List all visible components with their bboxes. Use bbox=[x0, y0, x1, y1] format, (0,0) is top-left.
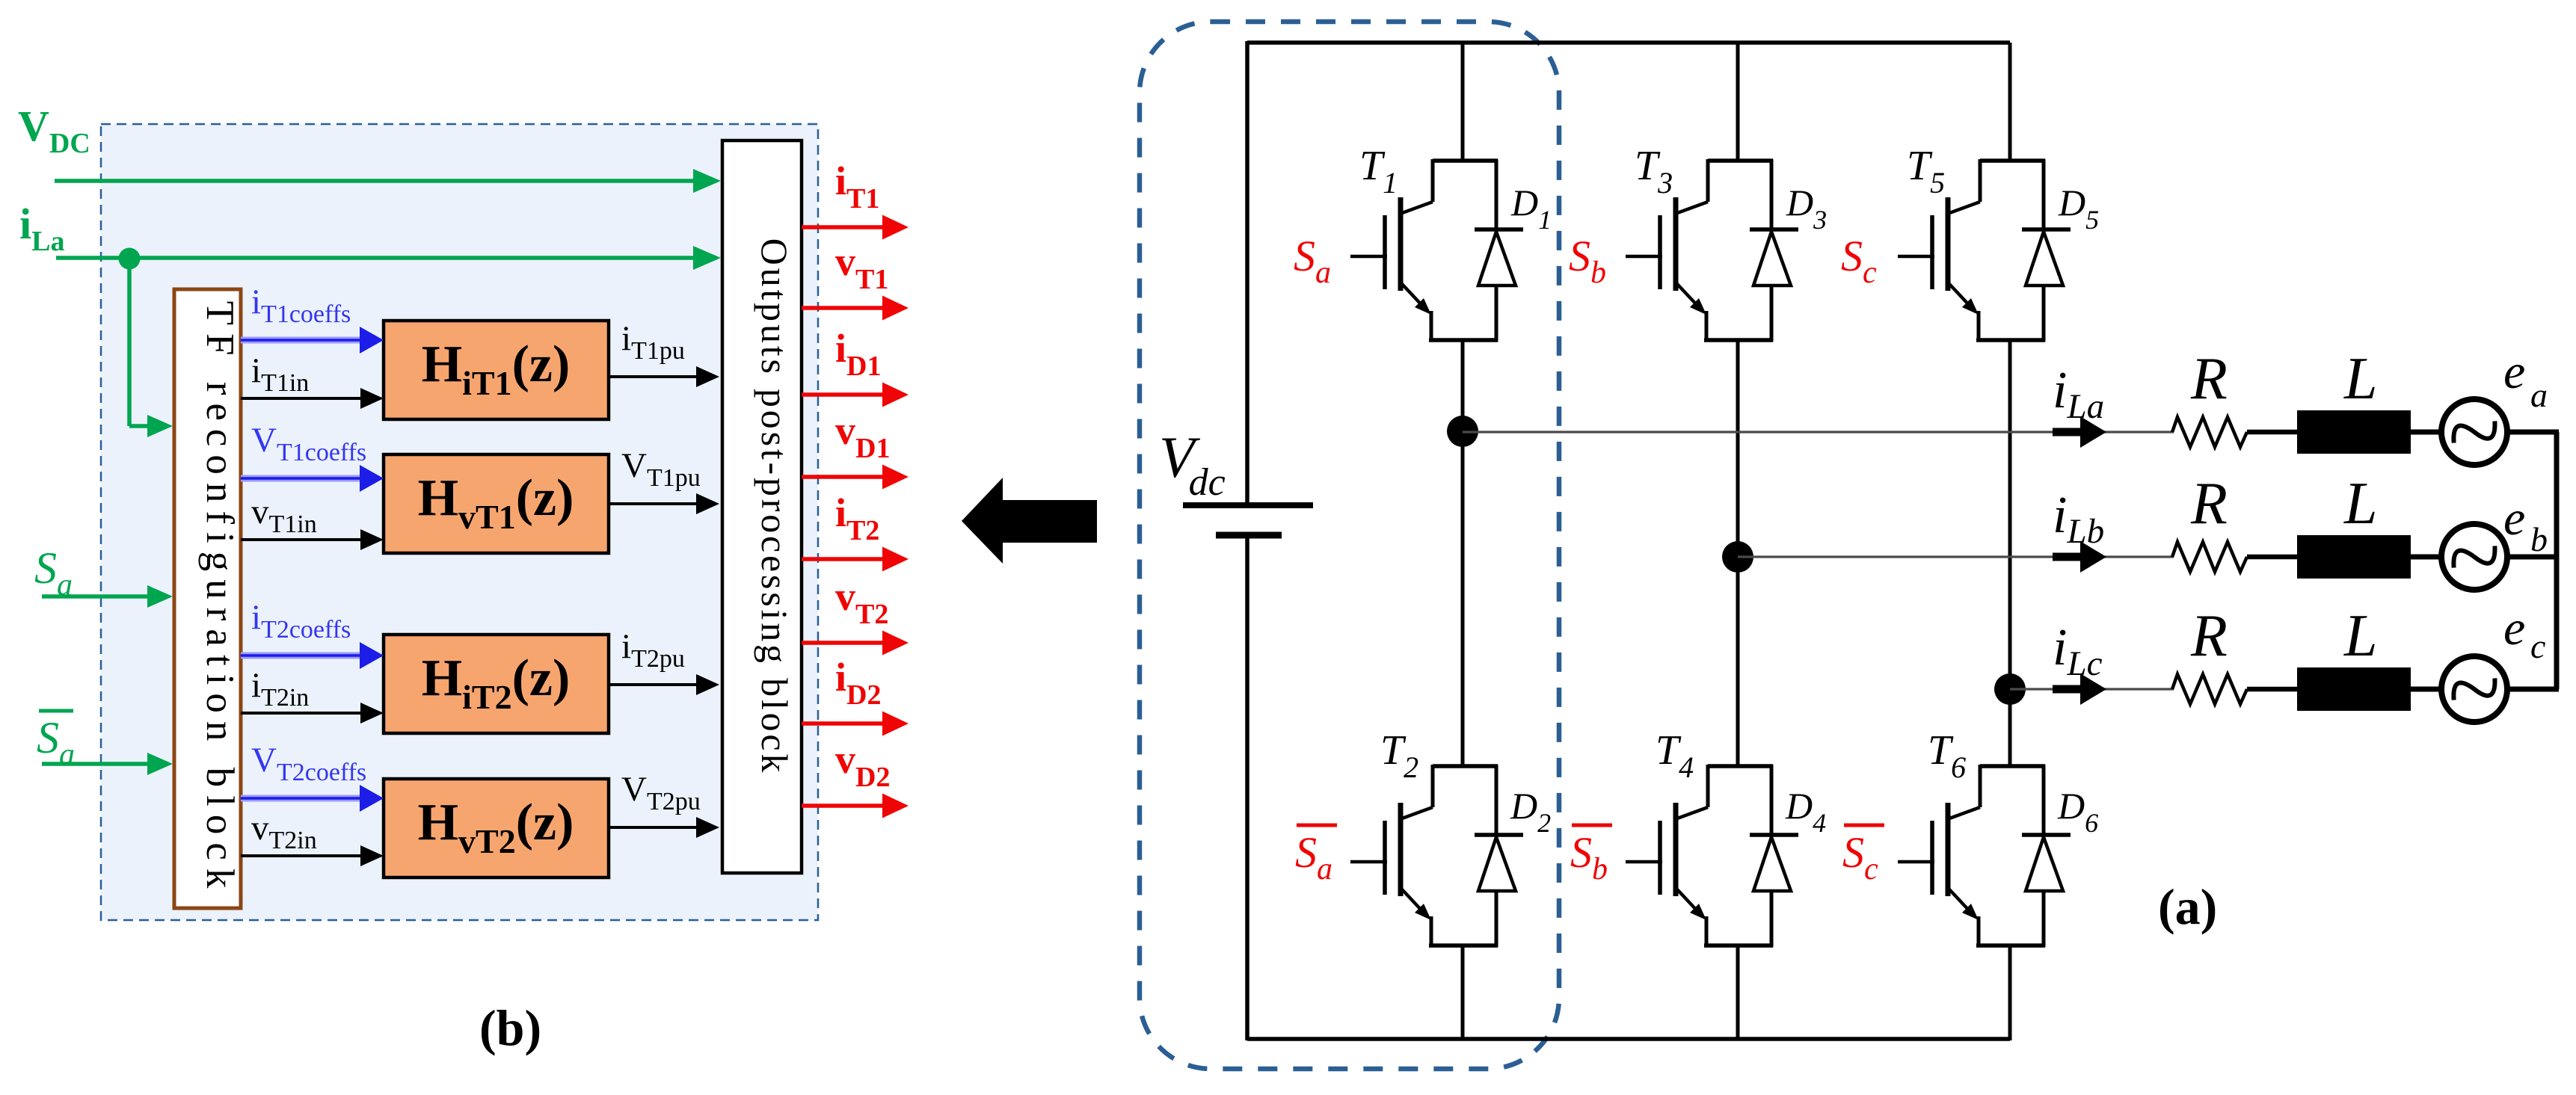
inductor L phase b bbox=[2297, 535, 2411, 579]
wire inductor to source bbox=[2411, 687, 2442, 692]
svg-text:L: L bbox=[2343, 346, 2378, 412]
wire output i_D1 (red arrow) bbox=[802, 392, 884, 397]
wire S_a-bar (green) into TF block bbox=[42, 762, 149, 766]
svg-text:L: L bbox=[2343, 603, 2378, 669]
wire resistor to inductor bbox=[2247, 687, 2299, 692]
label S_c-bar gate signal bbox=[1844, 824, 1884, 827]
wire phase a line to load bbox=[1463, 431, 2174, 433]
wire V_T1coeffs coefficients (blue double arrow) bbox=[241, 475, 364, 482]
wire i_T2in input (black arrow) bbox=[241, 712, 362, 715]
block: TF reconfiguration bbox=[174, 289, 241, 908]
resistor R phase a bbox=[2172, 417, 2247, 447]
diode D3 bbox=[1750, 159, 1798, 342]
wire phase c line to load bbox=[2010, 688, 2174, 690]
wire T3 to phase node b bbox=[1736, 340, 1740, 557]
current arrow i_La bbox=[2053, 428, 2082, 437]
big arrow pointing left bbox=[962, 478, 1097, 564]
transistor T2 bbox=[1350, 765, 1498, 947]
wire phase node c to T6 bbox=[2008, 689, 2012, 767]
battery V_dc negative wire bbox=[1245, 538, 1249, 1040]
wire T5 to phase node c bbox=[2008, 340, 2012, 689]
inductor L phase a bbox=[2297, 410, 2411, 454]
block: transfer function H_vT2(z) bbox=[384, 779, 609, 877]
wire T1 to phase node a bbox=[1461, 340, 1465, 431]
wire leg b: top bus to T3 bbox=[1736, 43, 1740, 161]
wire top DC bus bbox=[1247, 40, 2010, 45]
AC source e_b bbox=[2441, 524, 2507, 590]
node phase a junction bbox=[1447, 416, 1478, 447]
wire source c to right rail bbox=[2507, 687, 2559, 692]
wire output i_D2 (red arrow) bbox=[802, 721, 884, 726]
svg-text:R: R bbox=[2190, 471, 2228, 537]
transistor T6 bbox=[1898, 765, 2045, 947]
wire v_T1in input (black arrow) bbox=[241, 538, 362, 541]
wire phase b line to load bbox=[1738, 555, 2174, 558]
wire output v_T1 (red arrow) bbox=[802, 306, 884, 310]
wire inductor to source bbox=[2411, 555, 2442, 560]
wire i_T1coeffs coefficients (blue double arrow) bbox=[241, 337, 364, 344]
dashed boundary around phase-a leg bbox=[1140, 22, 1559, 1069]
block-diagram dashed boundary (b) bbox=[101, 124, 818, 920]
block: Outputs post-processing bbox=[722, 141, 802, 873]
wire i_La (green) into outputs block bbox=[56, 256, 695, 260]
wire output i_T1 (red arrow) bbox=[802, 225, 884, 229]
wire resistor to inductor bbox=[2247, 430, 2299, 435]
wire leg c: top bus to T5 bbox=[2008, 43, 2012, 161]
wire output i_T2 (red arrow) bbox=[802, 557, 884, 561]
transistor T1 bbox=[1350, 159, 1498, 342]
wire T2 to bottom bus bbox=[1461, 946, 1465, 1040]
wire V_T2coeffs coefficients (blue double arrow) bbox=[241, 795, 364, 802]
node S_a-bar input label bbox=[39, 709, 73, 713]
svg-text:Outputs post-processing block: Outputs post-processing block bbox=[754, 238, 796, 775]
resistor R phase c bbox=[2172, 674, 2247, 704]
current arrow i_Lc bbox=[2053, 685, 2082, 694]
wire v_T2in input (black arrow) bbox=[241, 854, 362, 857]
svg-text:(a): (a) bbox=[2158, 878, 2217, 935]
AC source e_c bbox=[2441, 656, 2507, 722]
battery V_dc plates bbox=[1183, 502, 1313, 508]
wire i_T1pu output (black arrow) bbox=[609, 375, 698, 378]
wire T4 to bottom bus bbox=[1736, 946, 1740, 1040]
inductor L phase c bbox=[2297, 667, 2411, 711]
wire phase node a to T2 bbox=[1461, 431, 1465, 767]
diode D4 bbox=[1750, 765, 1798, 947]
wire source a to right rail bbox=[2507, 430, 2559, 435]
wire output v_T2 (red arrow) bbox=[802, 641, 884, 645]
wire bottom DC bus bbox=[1247, 1037, 2010, 1041]
block: transfer function H_vT1(z) bbox=[384, 454, 609, 553]
diode D1 bbox=[1475, 159, 1523, 342]
AC source e_a bbox=[2441, 399, 2507, 465]
wire i_T1in input (black arrow) bbox=[241, 397, 362, 400]
wire phase node b to T4 bbox=[1736, 557, 1740, 767]
wire i_La branch down into TF block bbox=[127, 259, 132, 426]
wire inductor to source bbox=[2411, 430, 2442, 435]
diode D2 bbox=[1475, 765, 1523, 947]
svg-text:R: R bbox=[2190, 346, 2228, 412]
node phase b junction bbox=[1722, 541, 1753, 573]
wire S_a (green) into TF block bbox=[42, 594, 149, 599]
junction on i_La wire bbox=[119, 248, 141, 270]
transistor T5 bbox=[1898, 159, 2045, 342]
battery V_dc positive wire bbox=[1245, 41, 1249, 503]
diode D5 bbox=[2022, 159, 2071, 342]
wire output v_D2 (red arrow) bbox=[802, 803, 884, 808]
label S_b-bar gate signal bbox=[1572, 824, 1612, 827]
wire i_T2pu output (black arrow) bbox=[609, 683, 698, 686]
wire T6 to bottom bus bbox=[2008, 946, 2012, 1040]
block: transfer function H_iT2(z) bbox=[384, 635, 609, 733]
wire source b to right rail bbox=[2507, 555, 2559, 560]
wire output v_D1 (red arrow) bbox=[802, 475, 884, 479]
label S_a-bar gate signal bbox=[1297, 824, 1337, 827]
svg-text:(b): (b) bbox=[479, 999, 541, 1056]
resistor R phase b bbox=[2172, 542, 2247, 572]
wire i_T2coeffs coefficients (blue double arrow) bbox=[241, 653, 364, 659]
current arrow i_Lb bbox=[2053, 553, 2082, 561]
svg-text:TF reconfiguration block: TF reconfiguration block bbox=[198, 301, 242, 897]
svg-text:L: L bbox=[2343, 471, 2378, 537]
transistor T3 bbox=[1626, 159, 1773, 342]
block: transfer function H_iT1(z) bbox=[384, 321, 609, 419]
wire right return rail bbox=[2554, 432, 2560, 689]
wire V_DC (green) into outputs block bbox=[55, 179, 695, 183]
wire leg a: top bus to T1 bbox=[1461, 43, 1465, 161]
node phase c junction bbox=[1994, 673, 2026, 705]
svg-text:R: R bbox=[2190, 603, 2228, 669]
diode D6 bbox=[2022, 765, 2071, 947]
wire V_T2pu output (black arrow) bbox=[609, 826, 698, 829]
wire resistor to inductor bbox=[2247, 555, 2299, 560]
transistor T4 bbox=[1626, 765, 1773, 947]
wire V_T1pu output (black arrow) bbox=[609, 502, 698, 505]
